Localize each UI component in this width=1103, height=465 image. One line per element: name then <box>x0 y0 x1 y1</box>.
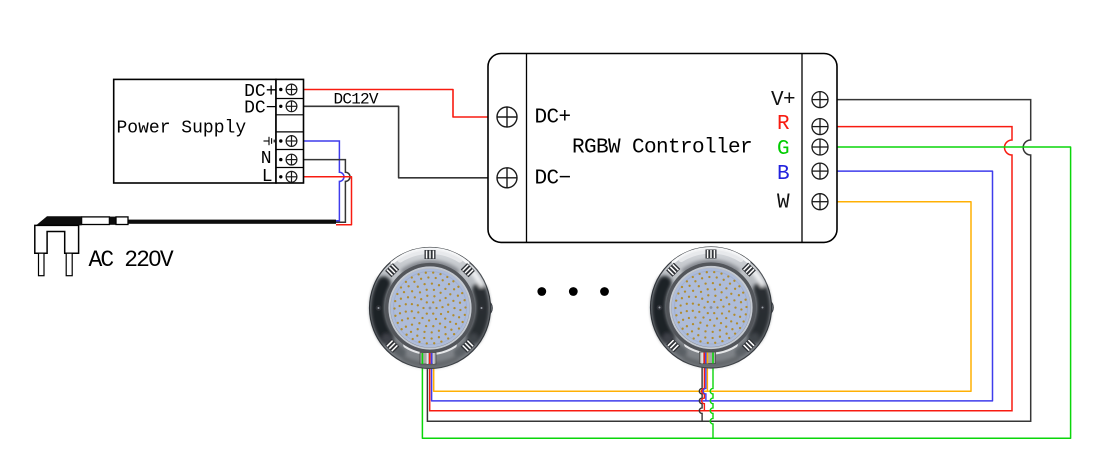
svg-text:DC+: DC+ <box>535 107 571 130</box>
svg-text:DC12V: DC12V <box>334 91 379 109</box>
svg-text:Power Supply: Power Supply <box>117 118 247 138</box>
svg-text:RGBW Controller: RGBW Controller <box>572 137 752 160</box>
svg-text:L: L <box>262 167 273 187</box>
svg-text:DC−: DC− <box>535 168 571 191</box>
svg-text:W: W <box>777 192 790 215</box>
svg-text:B: B <box>777 163 789 186</box>
svg-text:AC 220V: AC 220V <box>89 247 174 273</box>
svg-text:DC−: DC− <box>244 99 276 119</box>
svg-text:G: G <box>777 138 789 161</box>
svg-text:V+: V+ <box>771 89 795 112</box>
svg-text:R: R <box>777 113 790 136</box>
svg-text:N: N <box>261 149 272 169</box>
